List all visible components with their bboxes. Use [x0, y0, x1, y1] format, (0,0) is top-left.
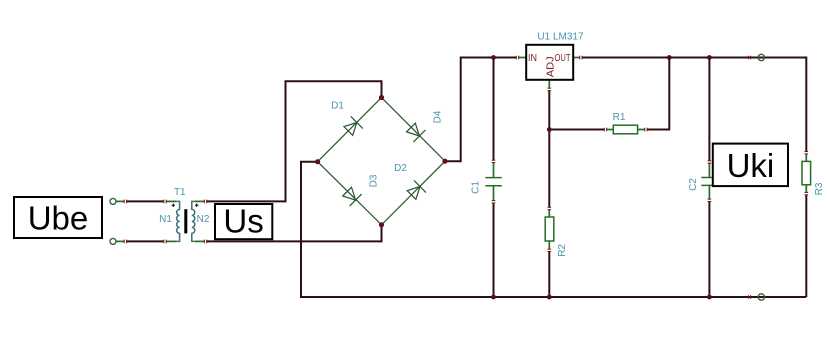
- svg-text:R1: R1: [613, 112, 626, 123]
- svg-text:D1: D1: [331, 101, 344, 112]
- svg-text:Uki: Uki: [727, 147, 775, 184]
- svg-text:C2: C2: [688, 178, 699, 191]
- svg-text:IN: IN: [528, 53, 537, 64]
- svg-text:ADJ: ADJ: [545, 56, 556, 77]
- svg-text:R2: R2: [557, 244, 568, 257]
- svg-text:D3: D3: [369, 174, 380, 187]
- svg-text:OUT: OUT: [555, 53, 571, 64]
- svg-text:N1: N1: [159, 214, 172, 225]
- svg-text:R3: R3: [814, 182, 825, 195]
- svg-text:C1: C1: [471, 181, 482, 194]
- svg-text:Us: Us: [223, 203, 263, 240]
- svg-text:U1 LM317: U1 LM317: [537, 31, 584, 42]
- svg-text:D4: D4: [433, 110, 444, 123]
- svg-text:D2: D2: [394, 163, 407, 174]
- svg-text:T1: T1: [174, 187, 186, 198]
- svg-text:Ube: Ube: [28, 199, 89, 236]
- svg-text:N2: N2: [197, 214, 210, 225]
